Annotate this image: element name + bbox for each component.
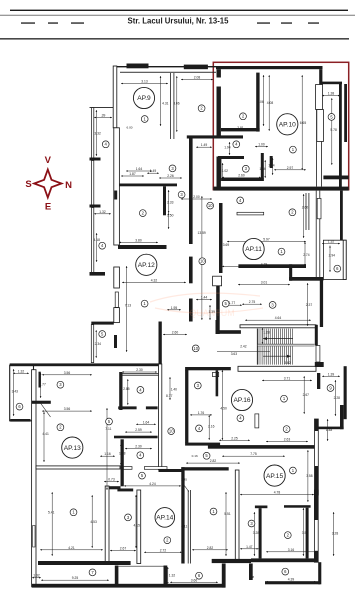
staircase right black corner [315,362,324,367]
wall AP.10 kitchen bottom [221,128,260,131]
svg-text:1.77: 1.77 [39,382,46,386]
svg-text:4.11: 4.11 [181,524,187,528]
door jamb west [114,191,117,200]
svg-text:2.00: 2.00 [193,195,200,199]
dimension 4.24 [124,485,181,487]
svg-text:8.77: 8.77 [166,394,173,398]
dimension 2.60 [222,176,261,178]
svg-text:9.25: 9.25 [72,576,79,580]
wall AP.14 south vertical black [222,564,226,588]
room number 1 [278,248,285,255]
dimension 4.11 vertical [182,492,184,556]
svg-text:1.48: 1.48 [326,428,333,432]
wall AP.10 bath left [218,159,221,181]
wall AP.13 west main [32,370,36,587]
wall small vertical [249,564,253,581]
svg-text:13.59: 13.59 [198,231,206,235]
svg-text:2.08: 2.08 [194,76,201,80]
room number 4 [233,141,240,148]
apartment label AP.11 [243,238,264,259]
svg-text:2.74: 2.74 [303,253,310,257]
svg-text:2.85: 2.85 [123,387,130,391]
wall hallway band [91,322,114,325]
wall right edge upper [340,191,343,241]
dimension 1.36 vertical [264,160,266,178]
wall AP.13 entry jamb [39,372,41,388]
room number 3 [125,514,132,521]
svg-text:1.95: 1.95 [171,306,178,310]
staircase hatch lower flight [258,346,293,364]
dimension 2.00 [181,198,212,200]
wall bath bottom [105,486,120,489]
dimension 3.71 [262,379,312,381]
svg-text:AP.9: AP.9 [137,95,151,102]
dimension 3.58 vertical [307,450,309,502]
svg-text:2.59: 2.59 [135,428,142,432]
highlight box AP.10 [213,62,348,189]
dimension 1.39 vertical [209,305,211,320]
dimension 4.41 vertical [43,412,45,462]
room number 6 [16,403,23,410]
room number 2 [283,426,290,433]
title bar second rule [0,14,355,17]
wall west outer upper [92,108,94,161]
room number 2 [139,210,146,217]
dimension 1.77 vertical ap13 [40,373,42,398]
wall corridor left mid [189,257,193,284]
wall AP.9 interior divider [169,73,171,139]
wall AP.13 mid horizontal [36,466,120,469]
wall AP.16 kitchen top [121,373,159,375]
dimension 1.64 ap16b [136,423,156,425]
svg-text:1.40: 1.40 [171,387,178,391]
wall AP.13 room3 bottom stub [32,401,51,404]
svg-text:2.60: 2.60 [302,205,309,209]
wall AP.13/AP.14 divider [105,486,109,564]
dimension 2.75 [242,303,262,305]
door AP.16 entry [213,372,219,376]
svg-text:5.97: 5.97 [263,238,270,242]
room number 3 [169,165,176,172]
svg-text:3.32: 3.32 [94,132,101,136]
dimension 2.97 [274,169,306,171]
dimension 7.11 vertical [106,408,108,490]
dimension 1.48 vertical [327,419,329,441]
svg-text:4.79: 4.79 [261,262,268,266]
wall AP.9 top outer [113,66,217,67]
room number 3 [248,520,255,527]
svg-text:2.82: 2.82 [210,459,217,463]
wall AP.13 top [10,363,162,366]
dimension 4.78 [240,494,314,496]
dimension 2.67 vertical AP16 [303,376,305,414]
svg-text:3.16: 3.16 [288,548,295,552]
svg-text:2.63: 2.63 [284,438,291,442]
wall corridor left upper [189,139,193,245]
svg-text:2.34: 2.34 [95,342,102,346]
wall AP.14 north [181,467,228,470]
svg-text:5.51: 5.51 [224,512,231,516]
counter AP.16 bath 2 [144,467,167,470]
wall AP.16 hall inner [216,370,219,396]
compass rose star [34,170,61,198]
wall room5 left [91,325,93,363]
wall AP.15 east window wall [314,490,318,562]
dimension .39 [94,117,112,119]
svg-text:4.15: 4.15 [134,523,141,527]
dimension 3.56 ap13b [42,410,92,412]
svg-text:1.02: 1.02 [222,169,229,173]
wall AP.15 T-wall west [255,506,268,509]
wall building bottom [32,584,226,588]
wall AP.14 south band west [38,561,131,565]
dimension 5.51 vertical [225,492,227,556]
staircase up arrow upper [263,338,293,340]
svg-text:AP.16: AP.16 [233,397,250,404]
wall divider AP.9/AP.10 lower [217,157,221,188]
wall AP.9 top inner [120,71,216,74]
svg-text:3.63: 3.63 [231,352,238,356]
dimension 3.80 [119,241,158,243]
dimension 3.16 [266,551,316,553]
room number 4 [237,197,244,204]
dimension 1.77 [222,304,242,306]
svg-text:10: 10 [200,259,205,264]
wall bath bottom black [117,489,133,492]
balcony AP.13 west outline [10,365,34,421]
svg-text:AP.14: AP.14 [156,515,173,522]
dimension 4.39 [266,581,316,583]
room number 1 [290,146,297,153]
svg-text:2.42: 2.42 [240,344,247,348]
svg-text:1.76: 1.76 [198,411,205,415]
room number 1 [70,509,77,516]
room number 9 [327,385,334,392]
svg-text:10: 10 [169,429,174,434]
svg-text:1.44: 1.44 [201,296,208,300]
dimension 2.59 [125,431,152,433]
window AP.13 west [33,526,35,548]
svg-text:10: 10 [193,346,198,351]
wall west main below AP.9 [114,128,120,245]
dimension 2.33 vertical [168,190,170,213]
dimension 4.32 [122,281,186,283]
dimension 2.72 [144,551,182,553]
room number 4 [137,452,144,459]
svg-text:AP.15: AP.15 [266,473,283,480]
room number 4 [237,415,244,422]
svg-text:1.45: 1.45 [181,478,187,482]
svg-text:E: E [45,202,51,213]
dimension 3.28b vertical [333,512,335,556]
svg-text:3.56: 3.56 [64,407,71,411]
dimension 2.16 vertical [208,415,210,440]
wall west stub 2 [90,205,101,208]
wall AP.9 lower horizontal [187,135,243,138]
svg-text:2.75: 2.75 [249,300,256,304]
svg-text:1.38: 1.38 [328,92,335,96]
balcony AP.15 south right [318,562,321,584]
dimension 4.08 vertical [268,75,270,131]
svg-text:0.73: 0.73 [108,478,115,482]
svg-text:3.06: 3.06 [173,102,180,106]
room number 1 [141,300,148,307]
room number 7 [89,569,96,576]
svg-text:N: N [65,180,72,191]
wall AP.14/AP.15 divider [235,470,239,560]
room number 2 [289,209,296,216]
dimension 2.60 kitchen12 [163,334,187,336]
wall AP.12 top thick [118,245,167,249]
staircase window east [316,346,320,363]
svg-text:2.30: 2.30 [135,445,142,449]
svg-text:6.00: 6.00 [126,126,132,130]
dimension 1.16 [100,455,115,457]
apartment label AP.16 [231,389,252,410]
svg-text:2.33: 2.33 [167,201,174,205]
svg-text:1.00: 1.00 [258,143,265,147]
wall AP.10 top step vertical [319,69,322,84]
apartment label AP.14 [155,508,175,528]
svg-text:V: V [45,155,52,166]
dimension 2.28 vertical [334,380,336,416]
dimension 1.39 AP16 [322,375,340,377]
room number 4 [196,425,203,432]
wall AP.16 mid [185,443,220,446]
svg-text:7.13: 7.13 [125,304,132,308]
svg-text:QUANTUM: QUANTUM [189,308,235,318]
svg-text:3.71: 3.71 [284,376,291,380]
dimension 3.28 vertical ap15 [253,512,255,556]
wall AP.12 room2 top [119,184,177,187]
dimension 4.50 vertical [221,370,223,440]
balcony AP.15 south bottom [265,581,320,584]
svg-text:2.60: 2.60 [238,173,245,177]
apartment label AP.13 [62,437,83,458]
svg-text:.38: .38 [250,575,255,579]
dimension 4.53 vertical [91,495,93,548]
svg-text:1.77: 1.77 [229,301,236,305]
wall AP.16 balcony east bottom [318,427,343,430]
svg-text:4.50: 4.50 [220,406,227,410]
svg-text:4.08: 4.08 [267,101,274,105]
apartment label AP.15 [264,465,285,486]
staircase top wall [240,325,316,328]
svg-text:4.31: 4.31 [162,102,169,106]
dimension 9.25 [41,579,109,581]
svg-text:Str. Lacul Ursului, Nr. 13-15: Str. Lacul Ursului, Nr. 13-15 [128,17,230,26]
wall AP.14 east double 1 [181,467,184,563]
dimension 3.32 vertical [95,110,97,156]
dimension 2.34 vertical [95,330,97,358]
room number 4 [99,242,106,249]
dimension 13.59 vertical [201,196,203,320]
wall AP.10 step horizontal [322,82,342,85]
dimension 4.18 vertical [96,233,98,262]
svg-text:4.64: 4.64 [275,316,282,320]
room number 1 [290,467,297,474]
dimension 1.40 vertical [169,377,171,400]
wall AP.14 south black [212,559,251,563]
dimension 6.65 vertical [301,75,303,170]
wardrobe AP.11 hall [237,212,264,215]
svg-text:1.49: 1.49 [201,143,208,147]
svg-text:1.32: 1.32 [33,574,40,578]
dimension 2.25 [219,439,250,441]
dimension 2.82 ap14b [192,549,228,551]
room number 3 [269,302,276,309]
dimension 5.78 vertical [331,98,333,165]
wall balcony7 left [115,566,119,588]
dimension 1.94 vertical [229,142,231,155]
svg-text:2.67: 2.67 [303,393,310,397]
door swing AP.13 [41,404,51,418]
room number 2 [240,113,247,120]
balcony AP.13 bottom wall [10,419,30,422]
svg-text:2.30: 2.30 [136,368,143,372]
door swing AP.14 entry [183,484,189,492]
dimension 7.13 vertical [126,266,128,352]
room number 3 [57,381,64,388]
dimension 1.32 ap14 bottom vertical [167,567,169,584]
apartment label AP.10 [277,114,298,135]
wall AP.14 east double 2 [187,490,189,564]
dimension 2.60b vertical [303,194,305,238]
title bar top rule [10,10,348,11]
wall AP.16 east small [317,373,320,389]
room number 10 [192,345,199,352]
wall corridor left lower [189,299,193,322]
svg-text:3.28: 3.28 [253,531,260,535]
svg-text:4.32: 4.32 [151,278,158,282]
svg-text:1.16: 1.16 [104,452,111,456]
room number 1 [281,395,288,402]
svg-text:1.32: 1.32 [169,574,176,578]
wall AP.10 bath top [218,156,244,159]
dimension 5.41 vertical [51,492,53,556]
title dashes right [257,22,270,23]
balcony AP.11 east right wall [343,240,346,279]
dimension 1.50 vertical [168,213,170,229]
wall AP.16 kitchen bottom right [146,406,158,409]
svg-text:1.94: 1.94 [224,146,231,150]
room number 2 [57,424,64,431]
svg-text:1.36: 1.36 [259,167,266,171]
wall AP.15 T-wall east [284,505,311,508]
wall closet AP.11 [305,193,307,230]
svg-text:1.28: 1.28 [263,330,270,334]
wall AP.16 south thick [208,445,316,449]
svg-text:2.81: 2.81 [237,126,244,130]
wall AP.12 kitchen east [159,322,162,364]
dimension 1.44 [196,299,212,301]
svg-text:2.37: 2.37 [306,303,313,307]
dimension 1.02 vertical [222,163,224,179]
dimension 1.32 balcony13 [13,372,29,374]
svg-text:3.43: 3.43 [12,389,19,393]
room number 3 [242,165,249,172]
dimension 2.85 vertical [127,379,129,405]
wall AP.9 left [113,66,117,128]
room number 2 [164,537,171,544]
svg-text:.39: .39 [101,114,106,118]
svg-text:AP.13: AP.13 [64,445,81,452]
dimension 2.30b [125,448,152,450]
wall AP.10 right [339,84,342,190]
room number 6 [282,568,289,575]
room number 10 [207,202,214,209]
wall west outer mid [92,161,94,207]
wall corridor right lower [216,286,220,334]
wall AP.16 hall top [185,367,231,370]
window band AP.10 east [316,85,318,187]
room number 10 [199,258,206,265]
wall AP.13/AP.16 boundary lower [121,439,124,486]
wall AP.9 top thick segment 2 [184,65,208,70]
wall west main AP.12 lower [114,308,120,323]
wall AP.16 bath mid [114,436,158,439]
room number 10 [168,428,175,435]
wall AP.14 room3 right [137,490,141,564]
svg-text:2.16: 2.16 [208,424,215,428]
dimension 2.94 vertical [329,246,331,272]
dimension 2.08 [181,79,213,81]
wall AP.16 west wall [159,364,162,470]
svg-text:1.49: 1.49 [150,169,157,173]
svg-text:2.25: 2.25 [231,436,238,440]
title bar bottom rule [0,38,349,39]
wall AP.16 south-west link [159,469,185,472]
dimension 4.79 [222,265,306,267]
dimension 3.13 [121,83,168,85]
staircase landing lines [258,343,315,345]
dimension 2.81 [222,129,259,131]
dimension 1.32b [322,243,340,245]
dimension 4.15 vertical [135,495,137,548]
wall balcony7 right [164,566,168,588]
svg-text:3.58: 3.58 [306,474,313,478]
dimension 5.97 [227,241,306,243]
dimension 1.76 AP16 [190,414,212,416]
room number 2 [198,105,205,112]
apartment label AP.12 [136,254,157,275]
svg-text:3.28: 3.28 [332,531,339,535]
room number 3 [194,382,201,389]
dimension 3.43 vertical [13,369,15,416]
dimension 1.47 [240,548,259,550]
svg-text:2.82: 2.82 [207,546,214,550]
room number 6 [196,572,203,579]
dimension 4.21 [40,549,103,551]
svg-text:3.13: 3.13 [141,80,148,84]
wall west outer lower [92,208,94,273]
dimension 4.31 vertical [160,76,162,126]
staircase left boundary [256,329,258,365]
staircase left walls [216,320,219,334]
svg-text:3.01: 3.01 [261,281,268,285]
staircase right wall [315,325,318,346]
room number 2 [284,532,291,539]
svg-text:6.65: 6.65 [300,121,307,125]
wall right edge AP.16 [344,366,347,419]
wall thick bottom of AP.10 section [213,187,348,191]
room number 6 [334,265,341,272]
dimension 1.87 [121,175,144,177]
wall AP.11 jog [289,264,292,280]
dimension 2.37 vertical [307,283,309,326]
svg-text:2.94: 2.94 [329,253,336,257]
wall AP.13/AP.16 boundary upper [119,372,122,410]
